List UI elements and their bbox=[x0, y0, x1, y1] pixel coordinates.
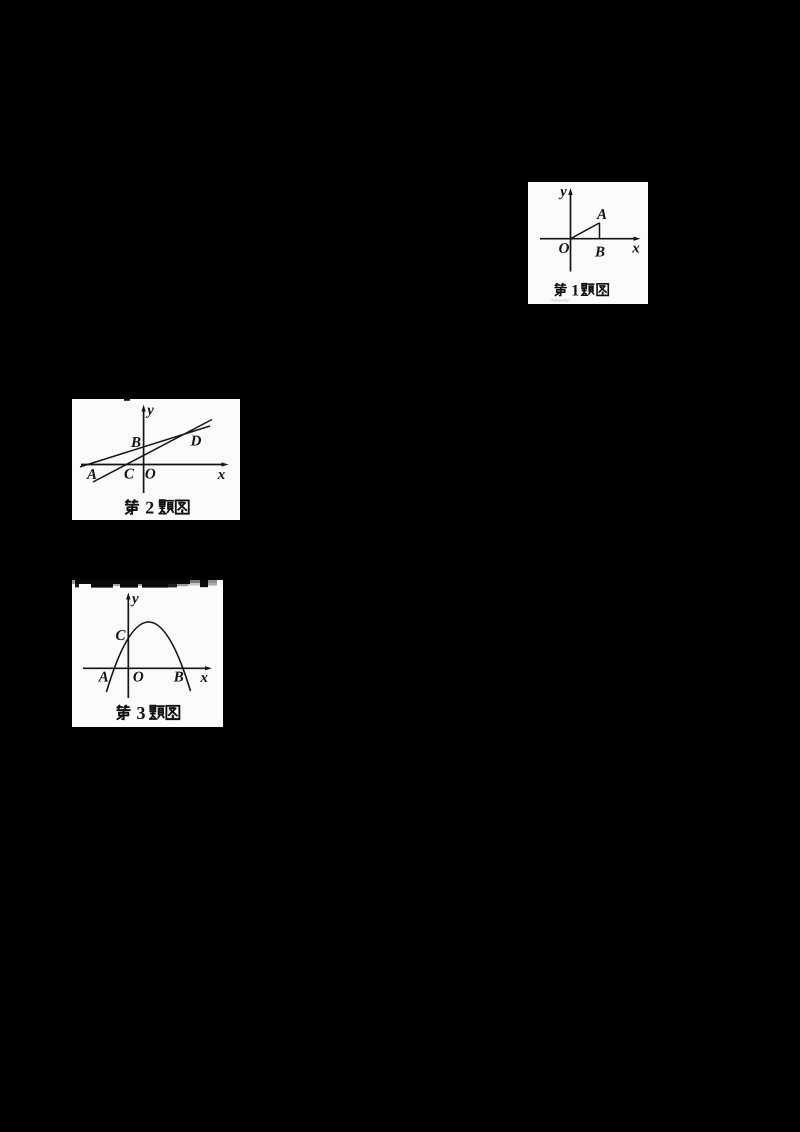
top notch artifact bbox=[124, 399, 130, 401]
y-axis bbox=[127, 597, 129, 698]
shared CJK glyph defs bbox=[0, 0, 1, 1]
faint smear under caption bbox=[551, 299, 569, 302]
label A bbox=[596, 209, 606, 219]
label x bbox=[218, 472, 225, 479]
smudge artifact strip bbox=[72, 580, 217, 588]
label y bbox=[146, 408, 154, 418]
y-axis arrowhead bbox=[142, 405, 146, 412]
segment OA bbox=[571, 223, 600, 239]
panel background bbox=[528, 182, 648, 304]
label B bbox=[131, 437, 141, 447]
parabola bbox=[106, 622, 190, 692]
label O bbox=[559, 243, 569, 253]
x-axis arrowhead bbox=[205, 666, 212, 670]
caption 第1题图 bbox=[555, 284, 608, 296]
label C bbox=[116, 630, 126, 640]
x-axis bbox=[540, 238, 634, 240]
label A bbox=[98, 672, 108, 682]
label x bbox=[200, 675, 207, 682]
label y bbox=[559, 189, 567, 199]
label D bbox=[190, 436, 201, 446]
caption 第3题图 bbox=[117, 705, 179, 719]
caption 第2题图 bbox=[126, 500, 189, 514]
label x bbox=[632, 246, 639, 253]
x-axis bbox=[81, 464, 222, 466]
figure 1 panel bbox=[528, 182, 648, 304]
panel background bbox=[72, 399, 240, 520]
line through A B D bbox=[80, 426, 210, 467]
x-axis bbox=[83, 667, 206, 669]
label B bbox=[174, 672, 184, 682]
label B bbox=[595, 247, 605, 257]
x-axis arrowhead bbox=[634, 237, 641, 241]
segment AB bbox=[599, 223, 601, 239]
y-axis arrowhead bbox=[568, 188, 572, 195]
y-axis bbox=[143, 410, 145, 493]
label y bbox=[130, 596, 138, 606]
x-axis arrowhead bbox=[222, 462, 229, 466]
y-axis bbox=[570, 192, 572, 272]
line through C D bbox=[93, 420, 212, 483]
panel background bbox=[72, 580, 223, 727]
label O bbox=[133, 672, 143, 682]
label A bbox=[86, 469, 96, 479]
figure 2 panel bbox=[72, 399, 240, 520]
label O bbox=[145, 469, 155, 479]
y-axis arrowhead bbox=[126, 593, 130, 600]
label C bbox=[125, 469, 135, 479]
figure 3 panel bbox=[72, 580, 223, 727]
